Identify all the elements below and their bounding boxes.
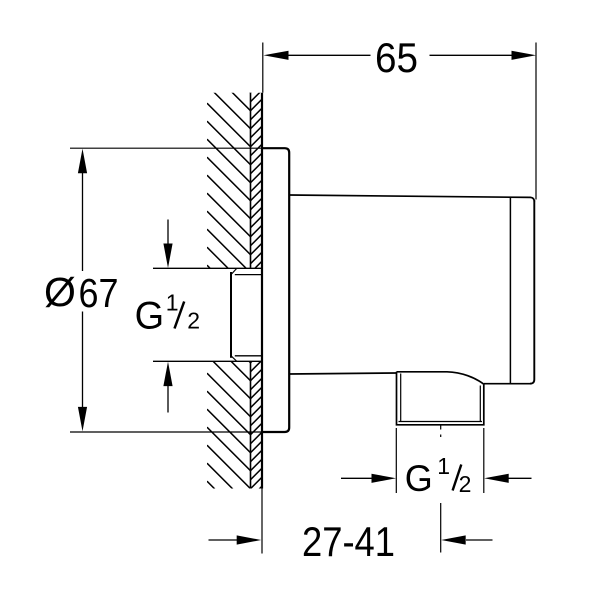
dimension 65 arrow left bbox=[264, 51, 289, 60]
dimension Ø67 line bbox=[82, 173, 84, 409]
union body bottom-front edge bbox=[484, 383, 531, 385]
wall hatch upper (masonry + plaster herringbone) bbox=[207, 49, 263, 309]
svg-text:G: G bbox=[135, 295, 165, 338]
rear inlet thread root top bbox=[235, 274, 262, 276]
dimension Ø67 arrow up bbox=[78, 149, 87, 174]
rear inlet thread end face bbox=[230, 272, 232, 358]
dimension outlet G1/2 arrow pointing right bbox=[341, 477, 372, 479]
svg-text:1: 1 bbox=[437, 453, 450, 479]
outlet center line lower bbox=[440, 503, 442, 553]
svg-text:65: 65 bbox=[375, 34, 418, 81]
svg-text:2: 2 bbox=[459, 471, 472, 497]
dimension 27-41 arrow left-pointing bbox=[441, 535, 466, 544]
extension line wall face upper (for 65) bbox=[262, 43, 264, 93]
outlet center line upper dash bbox=[440, 426, 442, 438]
outlet extension line right bbox=[483, 428, 485, 493]
rear inlet thread G1/2: bottom outer line + extension bbox=[153, 360, 262, 362]
rear inlet thread root bottom bbox=[235, 355, 262, 357]
extension line body front (for 65) bbox=[535, 43, 537, 200]
dimension 65 arrow right bbox=[512, 51, 537, 60]
dimension Ø67 extension top bbox=[70, 147, 262, 149]
union body front rim edge (chamfer circle) bbox=[509, 197, 511, 383]
dimension rear G1/2 arrow down bbox=[167, 220, 169, 247]
outlet thread root line right bbox=[479, 386, 481, 422]
rear inlet thread chamfer top bbox=[231, 269, 237, 275]
union body bottom edge bbox=[289, 373, 396, 374]
dimension Ø67 extension bottom bbox=[70, 431, 262, 433]
rear inlet thread G1/2: top outer line + extension bbox=[153, 267, 262, 269]
svg-text:Ø: Ø bbox=[44, 269, 76, 315]
wall hatch lower bbox=[207, 319, 263, 525]
escutcheon plate (rosette) bbox=[262, 148, 289, 432]
dimension 27-41 line left bbox=[209, 539, 238, 541]
dimension 27-41 arrow right-pointing bbox=[237, 535, 262, 544]
wall face line bbox=[261, 93, 263, 489]
wall plaster interface line bbox=[250, 93, 252, 489]
svg-text:1: 1 bbox=[166, 290, 179, 316]
outlet thread G1/2 outline bbox=[397, 372, 484, 425]
dimension Ø67 arrow down bbox=[78, 407, 87, 432]
dimension outlet G1/2 arrow pointing left bbox=[508, 477, 532, 479]
outlet thread root line bottom bbox=[399, 421, 483, 423]
outlet extension line left bbox=[395, 428, 397, 493]
union body top edge bbox=[289, 195, 534, 202]
svg-text:2: 2 bbox=[187, 308, 200, 334]
dimension rear G1/2 arrow up bbox=[167, 386, 169, 413]
rear inlet thread chamfer bottom bbox=[231, 356, 237, 361]
dimension 27-41 line right bbox=[466, 539, 493, 541]
svg-text:G: G bbox=[405, 458, 433, 499]
svg-text:27-41: 27-41 bbox=[302, 518, 395, 565]
union body front face bbox=[530, 200, 534, 384]
extension line wall face lower (for 27-41) bbox=[261, 489, 263, 554]
dimension 65 line bbox=[288, 54, 512, 56]
outlet thread root line left bbox=[400, 374, 402, 422]
svg-text:67: 67 bbox=[79, 270, 119, 316]
